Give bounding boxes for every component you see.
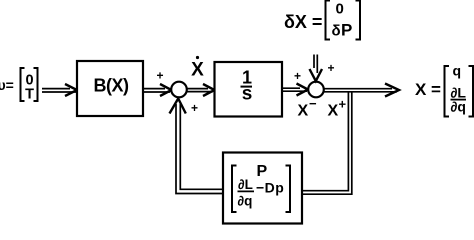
wire: feedback tap from output down to feedback block — [302, 92, 352, 194]
svg-text:−Dp: −Dp — [256, 180, 284, 196]
svg-text:−: − — [309, 96, 317, 111]
svg-text:δX =: δX = — [284, 12, 322, 32]
svg-text:υ=: υ= — [0, 77, 14, 93]
summing junction S2 — [308, 82, 324, 98]
wire: dX vertical double arrow into S2 — [310, 55, 323, 82]
wire: B(X) to summing junction S1 — [143, 84, 172, 96]
svg-text:X: X — [298, 103, 309, 120]
node label X minus — [298, 96, 318, 120]
node label X plus — [328, 97, 347, 120]
svg-text:P: P — [257, 163, 268, 180]
svg-text:∂L: ∂L — [238, 177, 253, 192]
svg-text:X: X — [191, 60, 204, 81]
svg-text:X =: X = — [415, 80, 441, 99]
wire: output double arrow — [324, 84, 399, 97]
feedback block [P; dL/dq - Dp] — [223, 153, 302, 224]
svg-text:X: X — [328, 103, 339, 120]
svg-text:T: T — [25, 87, 34, 103]
label dX = [0; dP] — [284, 1, 360, 40]
summing junction S1 — [171, 82, 187, 98]
wire: integrator to summing junction S2 — [282, 84, 308, 96]
svg-text:+: + — [191, 101, 198, 115]
svg-text:δ: δ — [332, 23, 341, 40]
svg-text:+: + — [294, 69, 301, 83]
wire: S1 to integrator — [187, 84, 215, 96]
svg-text:0: 0 — [336, 1, 344, 18]
svg-text:s: s — [242, 84, 253, 105]
svg-text:+: + — [327, 61, 334, 75]
svg-text:+: + — [339, 97, 347, 112]
svg-text:∂q: ∂q — [238, 194, 253, 209]
block B(X) — [77, 61, 143, 116]
wire: input double arrow into B(X) — [42, 84, 77, 96]
svg-text:∂q: ∂q — [451, 99, 466, 115]
output label X=[q; dL/dq] — [415, 63, 473, 117]
node label Xdot — [191, 56, 204, 81]
block integrator 1/s — [215, 62, 283, 117]
wire: feedback block to S1 (left, up, arrow into S1 bottom) — [170, 99, 224, 194]
svg-text:B(X): B(X) — [94, 76, 129, 96]
svg-text:P: P — [341, 21, 352, 40]
svg-text:+: + — [156, 69, 163, 83]
input label u=[0;T] — [0, 68, 38, 103]
svg-text:q: q — [453, 63, 462, 79]
